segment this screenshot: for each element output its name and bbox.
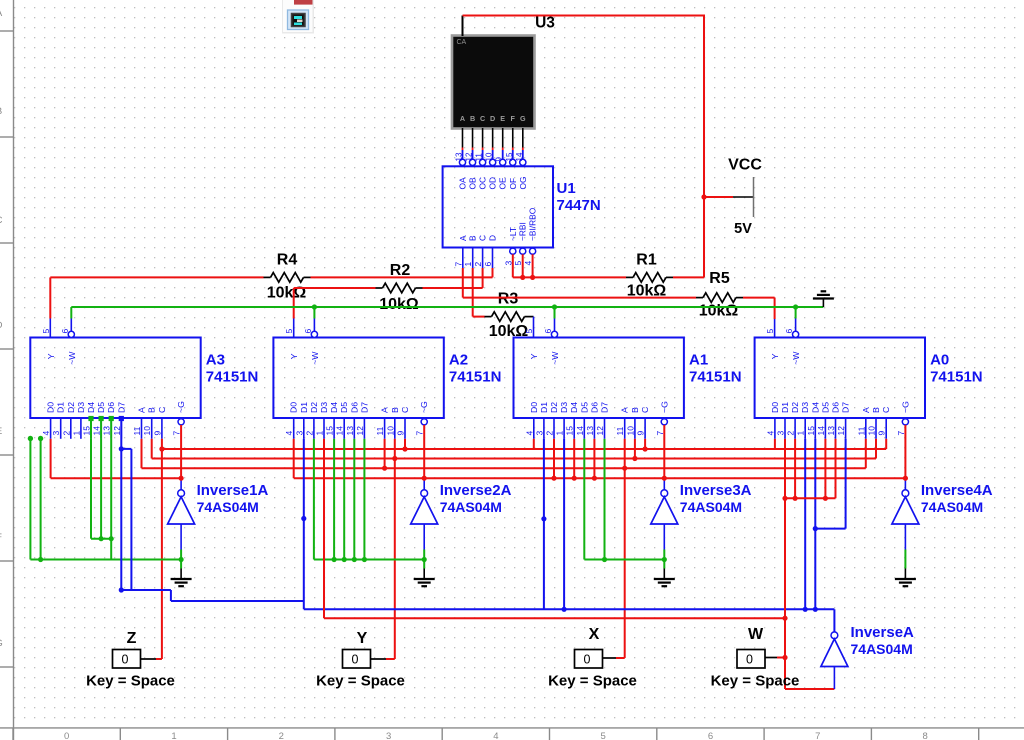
svg-text:A: A xyxy=(380,407,390,413)
svg-text:5: 5 xyxy=(601,731,606,740)
svg-text:15: 15 xyxy=(806,426,816,436)
svg-text:12: 12 xyxy=(465,152,474,161)
svg-text:D5: D5 xyxy=(579,402,589,413)
svg-text:C: C xyxy=(400,407,410,413)
svg-text:D3: D3 xyxy=(319,402,329,413)
svg-text:U3: U3 xyxy=(535,15,555,32)
svg-text:~G: ~G xyxy=(900,401,910,413)
svg-text:14: 14 xyxy=(515,152,524,161)
svg-text:9: 9 xyxy=(636,431,646,436)
svg-text:D3: D3 xyxy=(559,402,569,413)
svg-text:5: 5 xyxy=(284,329,294,334)
svg-text:C: C xyxy=(640,407,650,413)
svg-text:~W: ~W xyxy=(67,351,77,365)
svg-text:D: D xyxy=(0,320,3,331)
svg-text:11: 11 xyxy=(615,426,625,435)
svg-text:D1: D1 xyxy=(539,402,549,413)
svg-text:A3: A3 xyxy=(206,352,225,369)
multiplexer A2 74151N xyxy=(273,329,501,439)
svg-text:Key = Space: Key = Space xyxy=(548,673,637,690)
resistor R3 10k xyxy=(485,291,532,341)
svg-text:74AS04M: 74AS04M xyxy=(440,499,502,515)
svg-text:B: B xyxy=(390,407,400,413)
svg-text:D7: D7 xyxy=(359,402,369,413)
wire: A2 grounded data inputs (green) xyxy=(314,439,424,562)
switch Y (SPDT key) xyxy=(316,630,405,690)
svg-text:OF: OF xyxy=(508,178,518,190)
svg-text:Inverse3A: Inverse3A xyxy=(680,482,752,499)
wire: select A net (row + switch X column) xyxy=(142,439,866,658)
svg-text:74AS04M: 74AS04M xyxy=(680,499,742,515)
svg-text:12: 12 xyxy=(595,426,605,436)
svg-text:D6: D6 xyxy=(106,402,116,413)
svg-text:G: G xyxy=(520,114,526,123)
wire: R2 net (U1 pin C) row xyxy=(294,268,483,338)
svg-text:1: 1 xyxy=(555,431,565,436)
svg-text:B: B xyxy=(0,106,2,117)
svg-text:15: 15 xyxy=(565,426,575,436)
svg-text:Y: Y xyxy=(357,630,368,647)
svg-text:A1: A1 xyxy=(689,352,708,369)
svg-text:2: 2 xyxy=(545,431,555,436)
svg-text:4: 4 xyxy=(493,731,498,740)
svg-text:~W: ~W xyxy=(791,351,801,365)
svg-text:Key = Space: Key = Space xyxy=(86,673,175,690)
svg-text:10kΩ: 10kΩ xyxy=(267,284,307,301)
svg-text:D5: D5 xyxy=(339,402,349,413)
svg-text:D4: D4 xyxy=(86,402,96,413)
svg-text:R5: R5 xyxy=(709,270,730,287)
U3 reference label xyxy=(535,15,555,32)
svg-text:1: 1 xyxy=(796,431,806,436)
svg-text:2: 2 xyxy=(304,431,314,436)
wire: select B net (row + switch Y column) xyxy=(152,439,876,659)
ground symbol (top right) xyxy=(813,291,834,307)
wire: A3 grounded data inputs (green) xyxy=(28,416,181,562)
svg-text:D6: D6 xyxy=(831,402,841,413)
svg-text:74AS04M: 74AS04M xyxy=(197,499,259,515)
svg-text:OG: OG xyxy=(518,176,528,189)
svg-text:D7: D7 xyxy=(116,402,126,413)
wire: ground net green row xyxy=(71,304,823,331)
inverter Inverse3A 74AS04M xyxy=(651,482,752,569)
svg-text:Y: Y xyxy=(289,353,299,359)
svg-text:~G: ~G xyxy=(176,401,186,413)
svg-text:D2: D2 xyxy=(309,402,319,413)
svg-text:4: 4 xyxy=(524,431,534,436)
svg-text:12: 12 xyxy=(355,426,365,436)
svg-text:~W: ~W xyxy=(550,351,560,365)
svg-text:F: F xyxy=(511,114,516,123)
svg-text:D0: D0 xyxy=(770,402,780,413)
svg-text:13: 13 xyxy=(345,426,355,436)
svg-text:C: C xyxy=(881,407,891,413)
svg-text:A2: A2 xyxy=(449,352,468,369)
svg-text:~RBI: ~RBI xyxy=(518,222,528,241)
svg-text:OC: OC xyxy=(478,177,488,190)
decoder U1 7447N xyxy=(443,152,553,268)
svg-text:7: 7 xyxy=(815,731,820,740)
VCC power symbol 5V xyxy=(701,157,762,238)
svg-text:0: 0 xyxy=(352,653,359,667)
svg-text:W: W xyxy=(748,626,764,643)
ground (below Inverse4A) xyxy=(895,569,916,587)
svg-text:D6: D6 xyxy=(589,402,599,413)
svg-text:74151N: 74151N xyxy=(206,369,259,386)
svg-text:B: B xyxy=(468,235,478,241)
svg-text:15: 15 xyxy=(325,426,335,436)
svg-text:1: 1 xyxy=(315,431,325,436)
multiplexer A0 74151N xyxy=(755,329,983,439)
svg-text:74AS04M: 74AS04M xyxy=(921,499,983,515)
inverter InverseA 74AS04M xyxy=(821,609,914,689)
svg-text:5V: 5V xyxy=(734,221,752,237)
wire: A1 grounded data inputs (green) xyxy=(584,439,664,562)
wire: A3 D7 net (blue, lower-left bus) xyxy=(119,416,304,601)
svg-text:D1: D1 xyxy=(56,402,66,413)
ground (below Inverse3A) xyxy=(654,569,675,587)
svg-text:U1: U1 xyxy=(557,180,576,197)
inverter Inverse1A 74AS04M xyxy=(168,482,269,569)
svg-text:OA: OA xyxy=(458,177,468,190)
svg-text:E: E xyxy=(0,426,2,437)
svg-text:~G: ~G xyxy=(419,401,429,413)
svg-text:2: 2 xyxy=(279,731,284,740)
wire: enable net rows (inverter outputs) xyxy=(51,425,908,490)
svg-text:74151N: 74151N xyxy=(449,369,502,386)
switch W (SPDT key) xyxy=(711,626,800,690)
svg-text:D3: D3 xyxy=(800,402,810,413)
svg-text:InverseA: InverseA xyxy=(851,624,915,641)
svg-text:B: B xyxy=(871,407,881,413)
svg-text:74AS04M: 74AS04M xyxy=(851,641,913,657)
svg-text:D0: D0 xyxy=(529,402,539,413)
svg-text:5: 5 xyxy=(765,329,775,334)
svg-text:11: 11 xyxy=(856,426,866,435)
wire: R3 net (U1 pin B) xyxy=(473,268,534,338)
svg-text:A: A xyxy=(620,407,630,413)
svg-text:13: 13 xyxy=(455,152,464,161)
svg-text:G: G xyxy=(0,638,3,649)
svg-text:Z: Z xyxy=(127,630,137,647)
svg-text:4: 4 xyxy=(284,431,294,436)
svg-text:11: 11 xyxy=(132,426,142,435)
svg-text:14: 14 xyxy=(816,426,826,436)
svg-text:D1: D1 xyxy=(299,402,309,413)
svg-text:4: 4 xyxy=(765,431,775,436)
svg-text:VCC: VCC xyxy=(728,157,762,174)
svg-text:0: 0 xyxy=(122,653,129,667)
svg-text:C: C xyxy=(157,407,167,413)
seven-segment display U3 xyxy=(452,36,535,129)
svg-text:5: 5 xyxy=(524,329,534,334)
svg-text:Y: Y xyxy=(46,353,56,359)
svg-text:1: 1 xyxy=(463,262,473,267)
svg-text:C: C xyxy=(478,235,488,241)
svg-text:OD: OD xyxy=(488,177,498,190)
wire: inverter A feedback net (blue row) xyxy=(301,439,845,612)
svg-text:D1: D1 xyxy=(780,402,790,413)
switch X (SPDT key) xyxy=(548,626,637,690)
svg-text:A: A xyxy=(460,114,465,123)
svg-text:R1: R1 xyxy=(636,251,657,268)
svg-text:5: 5 xyxy=(41,329,51,334)
svg-text:~BI/RBO: ~BI/RBO xyxy=(528,207,538,241)
svg-text:D2: D2 xyxy=(790,402,800,413)
svg-text:14: 14 xyxy=(575,426,585,436)
svg-text:7447N: 7447N xyxy=(557,197,601,214)
multiplexer A1 74151N xyxy=(514,329,742,439)
svg-text:D4: D4 xyxy=(810,402,820,413)
svg-text:2: 2 xyxy=(786,431,796,436)
svg-text:13: 13 xyxy=(826,426,836,436)
svg-text:R4: R4 xyxy=(277,251,298,268)
wire: U3 CA to VCC net (top) xyxy=(463,15,705,278)
svg-text:9: 9 xyxy=(495,157,504,162)
svg-text:R3: R3 xyxy=(498,291,519,308)
multiplexer A3 74151N xyxy=(30,329,258,439)
resistor R1 10k xyxy=(626,251,673,299)
svg-text:A: A xyxy=(861,407,871,413)
svg-text:3: 3 xyxy=(534,431,544,436)
switch Z (SPDT key) xyxy=(86,630,175,690)
svg-text:D4: D4 xyxy=(329,402,339,413)
svg-text:B: B xyxy=(470,114,475,123)
svg-text:6: 6 xyxy=(708,731,713,740)
svg-text:D0: D0 xyxy=(46,402,56,413)
resistor R4 10k xyxy=(264,251,311,301)
svg-text:Inverse2A: Inverse2A xyxy=(440,482,512,499)
ground (below Inverse1A) xyxy=(171,569,192,587)
svg-text:D3: D3 xyxy=(76,402,86,413)
svg-text:Y: Y xyxy=(529,353,539,359)
wire: R5 net (U1 pin A) row xyxy=(463,268,775,338)
svg-text:D5: D5 xyxy=(820,402,830,413)
svg-text:2: 2 xyxy=(473,262,483,267)
svg-text:B: B xyxy=(630,407,640,413)
sheet border left ruler xyxy=(0,0,14,740)
svg-text:D0: D0 xyxy=(289,402,299,413)
svg-text:~W: ~W xyxy=(310,351,320,365)
svg-text:OB: OB xyxy=(468,177,478,190)
svg-text:10: 10 xyxy=(385,426,395,436)
svg-text:C: C xyxy=(480,114,485,123)
svg-text:Inverse1A: Inverse1A xyxy=(197,482,269,499)
svg-text:D2: D2 xyxy=(66,402,76,413)
svg-text:~G: ~G xyxy=(659,401,669,413)
svg-text:CA: CA xyxy=(457,39,467,46)
svg-text:0: 0 xyxy=(64,731,69,740)
svg-text:3: 3 xyxy=(776,431,786,436)
svg-text:11: 11 xyxy=(375,426,385,435)
svg-text:B: B xyxy=(147,407,157,413)
wire: R1 net (LT/RBI/RBO pull-up) row xyxy=(513,254,704,280)
svg-text:0: 0 xyxy=(746,653,753,667)
wires: U3 segment pins to U1 outputs xyxy=(463,128,523,159)
svg-text:10: 10 xyxy=(142,426,152,436)
svg-text:4: 4 xyxy=(41,431,51,436)
resistor R2 10k xyxy=(376,262,423,313)
floating toolbar icon xyxy=(282,0,314,34)
svg-text:Y: Y xyxy=(770,353,780,359)
svg-text:74151N: 74151N xyxy=(689,369,742,386)
wire: switch W net (red) xyxy=(324,439,836,689)
svg-text:9: 9 xyxy=(877,431,887,436)
svg-text:10kΩ: 10kΩ xyxy=(379,296,419,313)
resistor R5 10k xyxy=(696,270,743,320)
svg-text:74151N: 74151N xyxy=(930,369,983,386)
svg-text:13: 13 xyxy=(585,426,595,436)
svg-text:E: E xyxy=(500,114,505,123)
svg-text:~LT: ~LT xyxy=(508,227,518,241)
svg-text:D6: D6 xyxy=(349,402,359,413)
svg-text:D2: D2 xyxy=(549,402,559,413)
svg-text:Inverse4A: Inverse4A xyxy=(921,482,993,499)
svg-text:F: F xyxy=(0,532,2,543)
svg-text:Key = Space: Key = Space xyxy=(316,673,405,690)
svg-text:0: 0 xyxy=(584,653,591,667)
svg-text:Key = Space: Key = Space xyxy=(711,673,800,690)
svg-text:11: 11 xyxy=(475,153,484,162)
svg-text:OE: OE xyxy=(498,177,508,190)
svg-text:D5: D5 xyxy=(96,402,106,413)
svg-text:6: 6 xyxy=(483,262,493,267)
svg-text:D: D xyxy=(490,114,495,123)
U1 reference labels xyxy=(557,180,601,214)
svg-text:8: 8 xyxy=(922,731,927,740)
ground (below Inverse2A) xyxy=(414,569,435,587)
svg-text:10: 10 xyxy=(485,152,494,161)
wire: select C net (row + switch Z column) xyxy=(141,439,887,659)
inverter Inverse2A 74AS04M xyxy=(411,482,512,569)
svg-text:D7: D7 xyxy=(841,402,851,413)
svg-text:3: 3 xyxy=(51,431,61,436)
svg-text:9: 9 xyxy=(396,431,406,436)
svg-text:A0: A0 xyxy=(930,352,949,369)
svg-text:15: 15 xyxy=(505,152,514,161)
svg-text:X: X xyxy=(589,626,600,643)
svg-text:D7: D7 xyxy=(600,402,610,413)
svg-text:D: D xyxy=(488,235,498,241)
svg-text:C: C xyxy=(0,215,3,226)
inverter Inverse4A 74AS04M xyxy=(892,482,993,569)
svg-text:10kΩ: 10kΩ xyxy=(699,303,739,320)
wire: R4 net (U1 pin D pull-up) row xyxy=(50,268,492,338)
svg-text:9: 9 xyxy=(152,431,162,436)
svg-text:D4: D4 xyxy=(569,402,579,413)
sheet border bottom ruler xyxy=(0,728,1024,740)
svg-text:3: 3 xyxy=(386,731,391,740)
svg-text:14: 14 xyxy=(335,426,345,436)
svg-text:3: 3 xyxy=(294,431,304,436)
svg-text:A: A xyxy=(137,407,147,413)
svg-text:10: 10 xyxy=(867,426,877,436)
svg-text:A: A xyxy=(458,235,468,241)
svg-text:7: 7 xyxy=(453,262,463,267)
svg-text:1: 1 xyxy=(71,431,81,436)
svg-text:1: 1 xyxy=(171,731,176,740)
svg-text:12: 12 xyxy=(836,426,846,436)
svg-text:2: 2 xyxy=(61,431,71,436)
svg-text:10: 10 xyxy=(625,426,635,436)
